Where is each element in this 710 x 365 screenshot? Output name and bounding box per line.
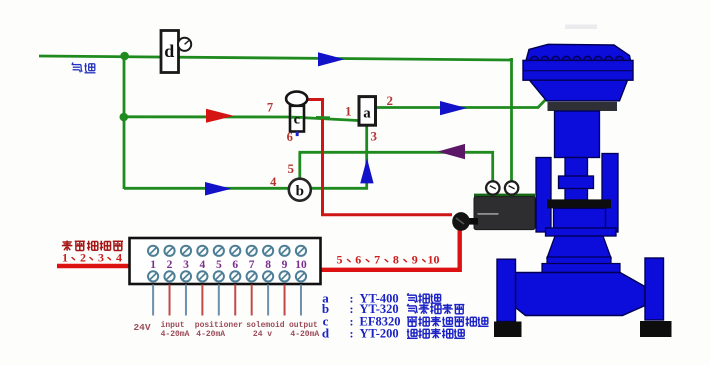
- svg-text:positioner: positioner: [195, 321, 243, 330]
- svg-text:1: 1: [150, 259, 156, 271]
- solenoid valve c (EF8320) with coil and pin6 stub: [286, 92, 307, 137]
- svg-text:input: input: [161, 321, 185, 330]
- svg-text:6: 6: [287, 130, 293, 144]
- svg-text:2: 2: [167, 259, 173, 271]
- wire middle green branch to valve c: [124, 117, 358, 121]
- terminal box: [130, 238, 321, 284]
- svg-text:9: 9: [282, 259, 288, 271]
- node junction dot on air line: [120, 52, 129, 61]
- svg-text:d: d: [322, 325, 330, 340]
- arrow blue up to a pin3: [360, 158, 373, 183]
- svg-text:3: 3: [370, 129, 377, 144]
- volume booster b (YT-320): [289, 179, 311, 201]
- yoke right column: [602, 154, 618, 233]
- positioner body (black box): [474, 194, 535, 230]
- yoke center block: [554, 208, 606, 232]
- svg-text:solemoid: solemoid: [246, 321, 285, 330]
- svg-text:4-20mA: 4-20mA: [196, 330, 225, 339]
- svg-text:3: 3: [98, 251, 104, 265]
- terminal field wires: [153, 285, 301, 316]
- stem coupling block: [559, 176, 594, 189]
- svg-text:2: 2: [386, 93, 393, 108]
- svg-text:4-20mA: 4-20mA: [161, 330, 190, 339]
- svg-text:a: a: [363, 106, 371, 122]
- legend a/b/c/d component list: [322, 290, 489, 340]
- svg-text:5: 5: [337, 253, 343, 267]
- svg-text:d: d: [164, 41, 174, 61]
- wire thick red terminal 5-10 to positioner: [321, 229, 460, 270]
- wire function labels: [133, 321, 319, 339]
- wire vertical green bus from node A: [123, 56, 126, 189]
- valve stem: [565, 158, 588, 201]
- svg-text:8: 8: [393, 253, 399, 267]
- arrow blue right on bottom branch: [205, 182, 232, 196]
- wire red from solenoid c to positioner: [306, 100, 452, 215]
- bonnet step 2: [542, 264, 620, 273]
- actuator top nub: [565, 25, 597, 30]
- svg-text:b: b: [296, 184, 304, 200]
- label terminals 5-10: [337, 253, 440, 267]
- svg-text:4: 4: [270, 175, 277, 189]
- cable gland ball: [452, 212, 470, 231]
- label air supply (qi yuan): [72, 63, 96, 73]
- right pipe flange: [645, 258, 664, 320]
- wire air-supply main green line (top): [39, 56, 513, 60]
- wire thick red from control room (left): [57, 264, 131, 268]
- terminal numbers 1-10: [150, 259, 307, 271]
- svg-text:5: 5: [288, 161, 295, 176]
- svg-text:output: output: [289, 321, 318, 330]
- right support foot: [640, 321, 672, 337]
- air-lock valve a (YT-400): [359, 97, 376, 126]
- svg-text:3: 3: [183, 259, 189, 271]
- svg-text::: :: [350, 326, 354, 340]
- svg-text:7: 7: [267, 101, 273, 115]
- svg-text:YT-200: YT-200: [360, 326, 399, 340]
- cable gland stem: [467, 218, 478, 225]
- wire green exhaust line with purple arrow: [299, 151, 495, 154]
- svg-text:1: 1: [62, 251, 68, 265]
- actuator diaphragm band: [523, 60, 633, 80]
- svg-text:10: 10: [428, 253, 440, 267]
- wire green drop to left gauge: [491, 151, 494, 183]
- svg-text:24 v: 24 v: [253, 330, 272, 339]
- svg-text:4: 4: [200, 259, 206, 271]
- svg-text:8: 8: [265, 259, 271, 271]
- pressure gauge right: [505, 181, 518, 194]
- svg-text:10: 10: [295, 259, 307, 271]
- arrow purple left on exhaust line: [438, 144, 466, 159]
- svg-text:24V: 24V: [133, 322, 150, 333]
- arrow blue right on air line: [318, 52, 345, 66]
- arrow red right on middle branch: [206, 109, 234, 123]
- terminal screws bottom row: [148, 271, 306, 281]
- actuator lower dome: [530, 80, 628, 101]
- svg-text:1: 1: [345, 104, 352, 119]
- pressure gauge left: [486, 181, 499, 194]
- terminal screws top row: [148, 246, 306, 256]
- wire vertical green a-pin3 to b line: [365, 125, 368, 190]
- yoke left column: [536, 158, 551, 233]
- bonnet trapezoid: [547, 236, 611, 258]
- left support foot: [494, 322, 522, 338]
- svg-text:6: 6: [355, 253, 361, 267]
- node junction dot middle branch: [120, 113, 129, 122]
- valve body: [516, 273, 646, 316]
- svg-text:7: 7: [374, 253, 380, 267]
- wire green crossing over red riser: [316, 116, 330, 119]
- wire green drop to right gauge: [510, 58, 513, 183]
- filter-regulator d (YT-200): [161, 31, 191, 73]
- svg-text:7: 7: [249, 259, 255, 271]
- actuator bolt heads: [531, 56, 624, 60]
- svg-text:5: 5: [216, 259, 222, 271]
- actuator neck: [555, 111, 600, 158]
- actuator top cap: [526, 44, 631, 60]
- wire green through c body: [291, 116, 303, 119]
- svg-text:9: 9: [412, 253, 418, 267]
- svg-text:4: 4: [116, 251, 122, 265]
- bonnet step 1: [547, 257, 611, 266]
- svg-text:c: c: [294, 113, 300, 128]
- travel indicator black bar: [547, 199, 611, 208]
- label from control room (lai zi kong zhi shi): [62, 241, 123, 251]
- wire green output of a to actuator: [375, 99, 546, 107]
- svg-text:4-20mA: 4-20mA: [290, 330, 319, 339]
- wire bottom green branch to booster b: [124, 187, 368, 190]
- actuator flange black band: [548, 102, 618, 111]
- svg-text:6: 6: [232, 259, 238, 271]
- bonnet base plate: [546, 228, 617, 236]
- label terminals 1,2,3,4: [62, 251, 122, 265]
- svg-text:2: 2: [80, 251, 86, 265]
- wire green b-top stub: [298, 152, 301, 180]
- left pipe flange: [497, 259, 516, 321]
- arrow blue right on a output: [440, 101, 467, 115]
